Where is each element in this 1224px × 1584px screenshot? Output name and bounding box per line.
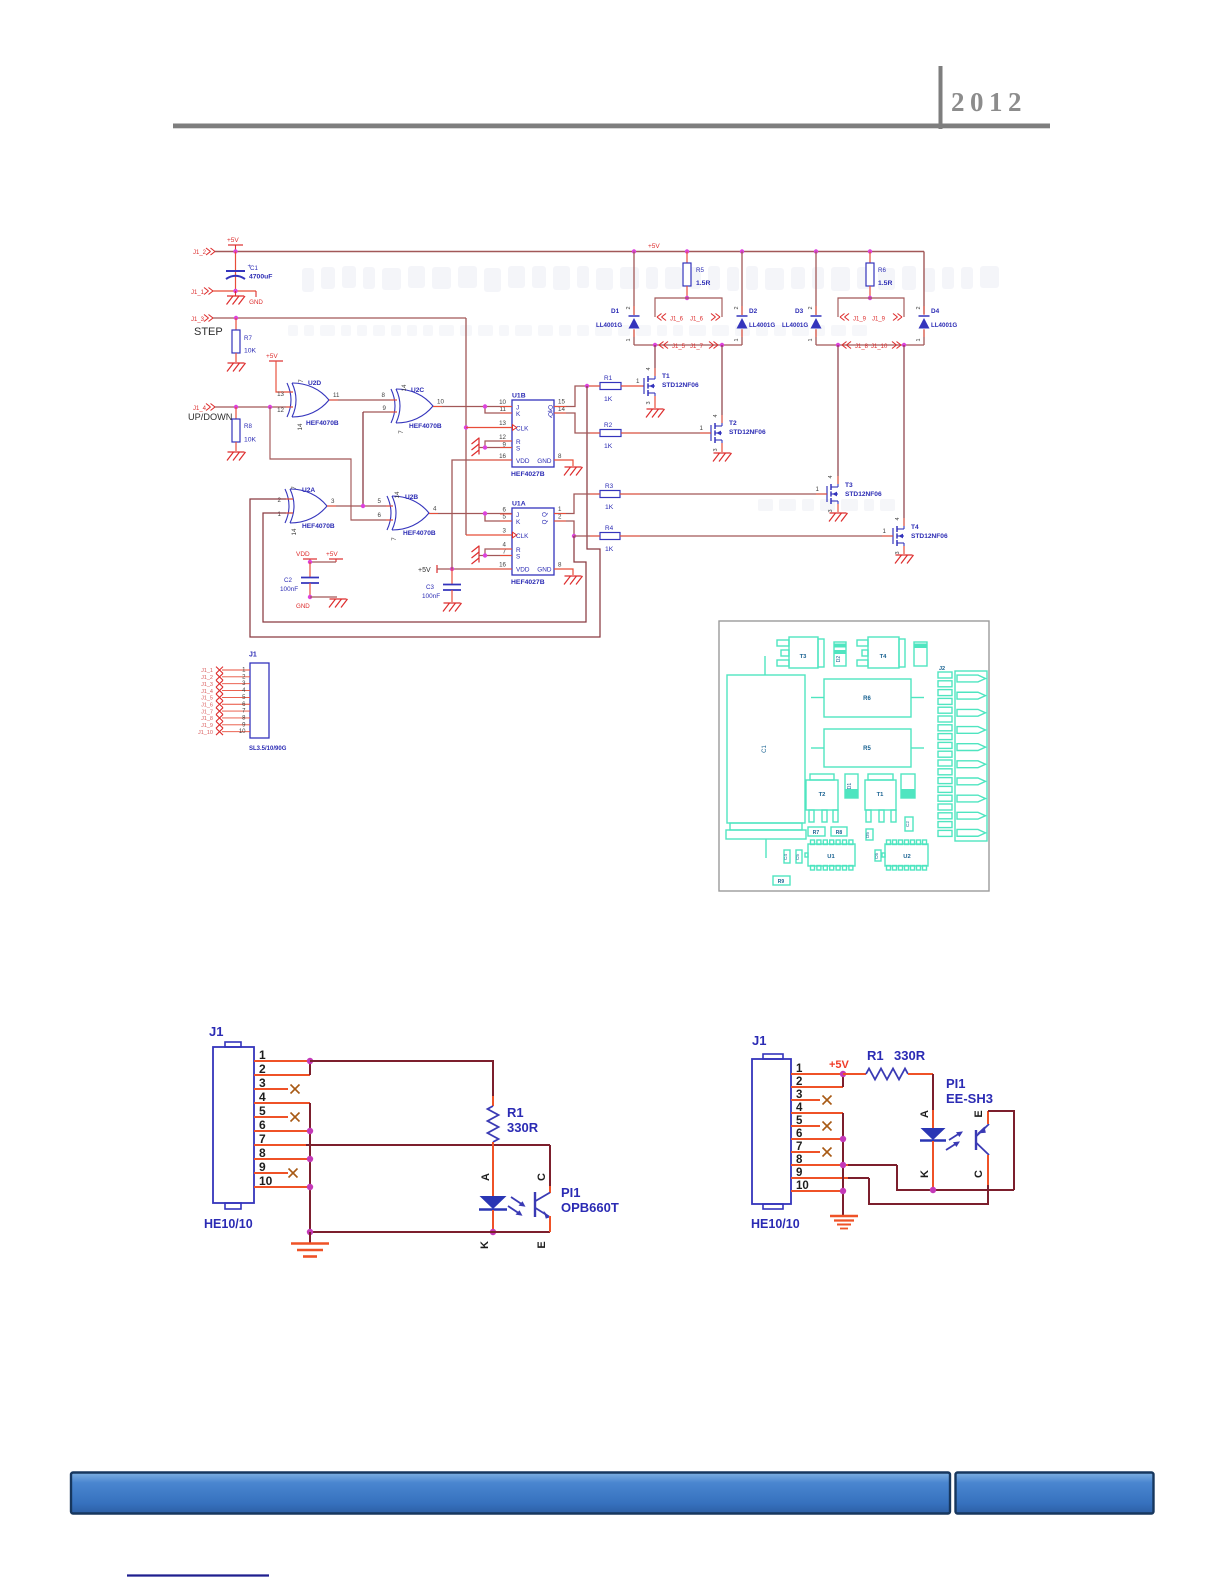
svg-text:CLK: CLK xyxy=(516,533,529,540)
svg-text:D4: D4 xyxy=(931,308,940,315)
pin leads output resistors xyxy=(589,386,893,536)
wire ground bus vertical (right) xyxy=(842,1113,844,1215)
svg-text:J1_4: J1_4 xyxy=(201,689,213,695)
junction rail R6 xyxy=(868,249,872,253)
svg-text:2012: 2012 xyxy=(951,87,1027,117)
connector pin J1_6 right xyxy=(690,314,720,323)
wire R1 to LED anode xyxy=(932,1074,934,1110)
svg-text:4: 4 xyxy=(242,688,246,694)
svg-text:OPB660T: OPB660T xyxy=(561,1200,619,1215)
PCB resistor R7 footprint xyxy=(808,827,825,836)
svg-text:HEF4070B: HEF4070B xyxy=(306,420,339,427)
svg-text:J1_7: J1_7 xyxy=(201,709,213,715)
node A label (right) xyxy=(919,1110,931,1118)
wire U2A out to U2B pin5 xyxy=(327,498,393,506)
svg-text:C4: C4 xyxy=(783,854,788,860)
svg-text:1.5R: 1.5R xyxy=(878,280,892,287)
svg-text:J1_3: J1_3 xyxy=(191,317,205,323)
wire U2D out to U2C pin8 xyxy=(329,392,397,400)
svg-text:4: 4 xyxy=(259,1090,266,1104)
junction rail/C1 xyxy=(233,249,237,253)
PCB test point footprint xyxy=(865,829,873,840)
svg-text:T1: T1 xyxy=(662,373,670,380)
junction rail D3 xyxy=(814,249,818,253)
connector J1 pin 5 wire J1_5 xyxy=(201,694,250,702)
connector J1 left pin 10 xyxy=(254,1174,310,1188)
node +5V at C3 xyxy=(418,565,437,574)
svg-text:STD12NF06: STD12NF06 xyxy=(729,429,766,436)
pin leads diodes xyxy=(634,306,924,337)
svg-text:+5V: +5V xyxy=(266,353,278,360)
svg-text:C1: C1 xyxy=(250,265,258,272)
pin leads MOSFET drains xyxy=(655,368,904,526)
pin leads XOR gates xyxy=(286,392,442,520)
junction rail D1 xyxy=(632,249,636,253)
svg-text:+5V: +5V xyxy=(326,551,338,558)
ground U1A GND pin xyxy=(554,569,583,585)
svg-text:U2: U2 xyxy=(903,854,910,860)
node VDD symbol xyxy=(296,551,317,562)
wire U1B Q to R1 xyxy=(554,386,600,407)
svg-text:A: A xyxy=(480,1173,492,1181)
wire C2 to ground xyxy=(310,596,337,598)
wire ground bus vertical xyxy=(309,1103,311,1232)
svg-text:9: 9 xyxy=(383,405,387,412)
wire R2 to T2 gate xyxy=(621,425,711,433)
connector J1 pin 9 wire J1_9 xyxy=(201,721,250,729)
svg-text:1: 1 xyxy=(259,1048,266,1062)
svg-text:J1_6: J1_6 xyxy=(690,317,704,323)
junction C1/ground xyxy=(233,289,237,293)
connector J1 pin 3 wire J1_3 xyxy=(201,680,250,688)
junction U1B J/K tie xyxy=(483,404,487,408)
connector J1 right pin 10 xyxy=(791,1180,843,1192)
svg-text:R5: R5 xyxy=(696,267,704,274)
svg-text:LL4001G: LL4001G xyxy=(749,322,775,329)
PCB diode D2 footprint xyxy=(834,642,846,666)
PCB resistor R6 footprint xyxy=(811,679,924,717)
connector J1 right pin 4 xyxy=(791,1102,843,1114)
svg-text:UP/DOWN: UP/DOWN xyxy=(188,412,232,422)
wire winding-2 ends row xyxy=(816,344,924,346)
ground (left schematic) xyxy=(291,1232,329,1257)
connector J1 right pin 7 xyxy=(791,1141,820,1153)
PCB transistor T1 footprint xyxy=(865,774,896,822)
svg-text:T2: T2 xyxy=(729,420,737,427)
connector pin J1_9 left xyxy=(840,314,867,323)
wire J1_1 to ground node xyxy=(213,290,256,292)
wire R4 to T4 gate xyxy=(620,528,893,536)
junction C2 top xyxy=(308,560,312,564)
PCB trace stub above C1 xyxy=(764,656,766,675)
connector J1 left pin 6 xyxy=(254,1118,310,1132)
junction feedback tap xyxy=(268,405,272,409)
connector J1 pin 6 wire J1_6 xyxy=(201,701,250,709)
svg-text:1: 1 xyxy=(626,338,632,341)
svg-text:R8: R8 xyxy=(836,830,843,836)
wire R4 input xyxy=(574,535,600,537)
svg-text:10: 10 xyxy=(259,1174,273,1188)
svg-text:J1_10: J1_10 xyxy=(198,730,213,736)
svg-text:J1_5: J1_5 xyxy=(672,344,686,350)
ground U1B GND pin xyxy=(554,460,583,476)
ground R7 xyxy=(227,363,246,372)
svg-text:1K: 1K xyxy=(605,546,614,553)
wire pin7 to phototransistor net xyxy=(306,1145,550,1186)
wire UP/DOWN net xyxy=(215,406,293,408)
svg-text:C1: C1 xyxy=(762,745,768,753)
svg-text:2: 2 xyxy=(626,306,632,309)
svg-text:D3: D3 xyxy=(795,308,804,315)
svg-text:C5: C5 xyxy=(795,854,800,860)
svg-text:T3: T3 xyxy=(845,482,853,489)
wire top net to R1 xyxy=(310,1061,493,1096)
junction pin8 (right) xyxy=(840,1162,846,1168)
phototransistor PI1 xyxy=(535,1186,550,1232)
transistor T3 STD12NF06 xyxy=(827,345,882,513)
svg-text:13: 13 xyxy=(277,391,284,398)
connector J1 SL3.5/10/90G xyxy=(249,652,287,753)
svg-text:3: 3 xyxy=(331,498,335,505)
svg-text:J1_1: J1_1 xyxy=(191,290,205,296)
svg-text:9: 9 xyxy=(242,722,246,728)
light arrows PI1 (right) xyxy=(946,1131,963,1150)
node +5V gate pullup xyxy=(266,353,283,361)
wire C1 branch xyxy=(235,252,237,292)
junction T1 drain xyxy=(653,343,657,347)
svg-text:8: 8 xyxy=(242,715,246,721)
wire feedback A (U1B Q to U2A pin2) xyxy=(250,386,600,637)
svg-text:GND: GND xyxy=(296,603,310,610)
svg-text:STEP: STEP xyxy=(194,326,223,338)
wire U1B Qbar to R2 xyxy=(554,413,600,433)
svg-text:7: 7 xyxy=(259,1132,266,1146)
svg-text:J1_6: J1_6 xyxy=(670,317,684,323)
svg-text:10: 10 xyxy=(239,729,246,735)
wire VDD tie xyxy=(310,561,336,563)
connector J1 right pin 9 xyxy=(791,1167,869,1179)
PCB resistor R9 footprint xyxy=(773,876,790,885)
svg-text:11: 11 xyxy=(333,392,340,399)
svg-text:J1_10: J1_10 xyxy=(871,344,888,350)
svg-text:E: E xyxy=(536,1241,548,1248)
svg-text:VDD: VDD xyxy=(516,567,530,574)
ground T2 xyxy=(713,453,732,462)
svg-text:R8: R8 xyxy=(244,423,252,430)
connector pin J1_3 xyxy=(191,315,213,324)
svg-text:2: 2 xyxy=(278,497,282,504)
connector pin J1_1 xyxy=(191,288,213,297)
svg-text:3: 3 xyxy=(503,528,507,535)
PCB connector J2 footprint xyxy=(938,666,987,841)
ground C3 xyxy=(443,603,462,612)
svg-text:330R: 330R xyxy=(894,1048,926,1063)
svg-text:PI1: PI1 xyxy=(946,1076,966,1091)
svg-text:+5V: +5V xyxy=(227,237,239,244)
svg-text:C3: C3 xyxy=(426,584,434,591)
op-amp U1B HEF4027B box xyxy=(499,393,565,479)
PCB diode D4 footprint xyxy=(914,642,927,666)
junction R6 centre tap xyxy=(868,296,872,300)
svg-text:14: 14 xyxy=(291,528,298,535)
svg-text:5: 5 xyxy=(259,1104,266,1118)
junction R5 centre tap xyxy=(685,296,689,300)
label PI1 OPB660T xyxy=(561,1185,619,1215)
svg-text:K: K xyxy=(479,1241,491,1249)
wire U1A CLK xyxy=(466,534,512,536)
svg-text:J1_9: J1_9 xyxy=(201,723,213,729)
svg-text:R2: R2 xyxy=(604,422,613,429)
junction T4 drain xyxy=(902,343,906,347)
svg-text:4700uF: 4700uF xyxy=(249,274,272,281)
svg-text:VDD: VDD xyxy=(516,458,530,465)
connector J1 right pin 2 xyxy=(791,1076,843,1088)
pin leads U1A xyxy=(470,514,566,570)
svg-text:S: S xyxy=(516,554,520,561)
wire LED cathode xyxy=(492,1210,494,1232)
junction pin10 xyxy=(307,1184,313,1190)
light arrows PI1 xyxy=(508,1197,526,1216)
svg-text:U1: U1 xyxy=(827,854,835,860)
svg-text:7: 7 xyxy=(242,709,246,715)
svg-text:C: C xyxy=(536,1173,548,1181)
svg-text:J1: J1 xyxy=(209,1024,223,1039)
junction R8 tap xyxy=(234,405,238,409)
no-connect X pin5 xyxy=(291,1113,300,1122)
svg-text:15: 15 xyxy=(558,399,565,406)
svg-text:J1_8: J1_8 xyxy=(201,716,213,722)
svg-text:LL4001G: LL4001G xyxy=(782,322,808,329)
svg-text:9: 9 xyxy=(259,1160,266,1174)
wire rail to D4 xyxy=(923,252,925,315)
wire pin2 tie xyxy=(842,1074,844,1087)
connector J1 pin 1 wire J1_1 xyxy=(201,667,250,675)
svg-text:D1: D1 xyxy=(847,783,853,790)
junction R4 / feedback B xyxy=(572,534,576,538)
resistor R1 1K xyxy=(600,375,621,403)
svg-text:13: 13 xyxy=(499,420,506,427)
svg-text:T1: T1 xyxy=(877,792,885,798)
svg-text:100nF: 100nF xyxy=(280,586,298,593)
connector J1 HE10/10 (right) xyxy=(751,1033,800,1231)
connector J1 left pin 4 xyxy=(254,1090,310,1104)
ground C2 xyxy=(296,599,348,610)
svg-text:11: 11 xyxy=(500,406,507,413)
connector J1 left pin 9 xyxy=(254,1160,288,1174)
PCB IC U2 footprint xyxy=(882,840,928,870)
svg-text:+5V: +5V xyxy=(418,567,431,574)
svg-text:HE10/10: HE10/10 xyxy=(751,1217,800,1231)
svg-text:1: 1 xyxy=(808,338,814,341)
resistor R2 1K xyxy=(600,422,621,450)
svg-text:2: 2 xyxy=(242,674,246,680)
footer bar right xyxy=(956,1473,1154,1514)
svg-text:J1_9: J1_9 xyxy=(872,317,886,323)
junction U1A J/K tie xyxy=(483,511,487,515)
junction pin6 xyxy=(307,1128,313,1134)
PCB capacitor C1 footprint xyxy=(726,675,806,858)
svg-text:7: 7 xyxy=(298,379,305,383)
junction K bottom xyxy=(490,1229,496,1235)
svg-text:EE-SH3: EE-SH3 xyxy=(946,1091,993,1106)
PCB diode D3 footprint xyxy=(901,774,915,798)
svg-text:7: 7 xyxy=(398,430,405,434)
svg-text:J1_6: J1_6 xyxy=(201,702,213,708)
svg-text:1K: 1K xyxy=(604,443,613,450)
wire winding-1 ends row xyxy=(634,344,742,346)
resistor R1 330R xyxy=(488,1096,539,1145)
wire STEP net xyxy=(213,318,466,535)
junction T2 drain xyxy=(720,343,724,347)
wire U1A Q to R3 xyxy=(554,494,600,514)
ground U1B R/S xyxy=(472,438,480,457)
connector pin J1_10 xyxy=(871,342,901,351)
no-connect X pin3 (right) xyxy=(823,1096,832,1105)
svg-text:E: E xyxy=(973,1110,985,1117)
wire winding-2 centre bracket xyxy=(838,298,904,317)
wire feedback B (U1A Qbar to U2A pin1) xyxy=(263,513,586,622)
wire LED anode xyxy=(492,1145,494,1196)
connector pin J1_5 xyxy=(659,342,686,351)
svg-text:J2: J2 xyxy=(939,666,945,672)
ground T1 xyxy=(646,409,665,418)
svg-text:10K: 10K xyxy=(244,437,257,444)
PCB diode D1 footprint xyxy=(845,774,858,798)
connector J1 pin 2 wire J1_2 xyxy=(201,673,250,681)
svg-text:3: 3 xyxy=(828,509,834,512)
svg-text:T4: T4 xyxy=(880,654,888,660)
PCB transistor T4 footprint xyxy=(857,637,905,668)
header year text 2012 xyxy=(951,87,1027,117)
svg-text:3: 3 xyxy=(713,448,719,451)
svg-text:3: 3 xyxy=(242,681,246,687)
svg-text:STD12NF06: STD12NF06 xyxy=(845,491,882,498)
svg-text:2: 2 xyxy=(916,306,922,309)
svg-text:HEF4070B: HEF4070B xyxy=(403,530,436,537)
svg-text:GND: GND xyxy=(537,567,552,574)
svg-text:PI1: PI1 xyxy=(561,1185,581,1200)
node A label xyxy=(480,1173,492,1181)
junction C2 bottom xyxy=(308,595,312,599)
svg-text:6: 6 xyxy=(503,507,507,514)
svg-text:LL4001G: LL4001G xyxy=(931,322,957,329)
svg-text:2: 2 xyxy=(808,306,814,309)
svg-text:T4: T4 xyxy=(911,524,919,531)
op-gate U2A HEF4070B xyxy=(278,486,335,536)
svg-text:R1: R1 xyxy=(867,1048,884,1063)
junction pin8 xyxy=(307,1156,313,1162)
wire bottom return xyxy=(310,1231,550,1233)
svg-text:16: 16 xyxy=(499,562,506,569)
junction T3 drain xyxy=(836,343,840,347)
footer table rule xyxy=(127,1574,269,1576)
svg-text:U2A: U2A xyxy=(302,487,315,494)
svg-text:D2: D2 xyxy=(749,308,758,315)
PCB resistor R5 footprint xyxy=(811,729,924,767)
transistor T2 STD12NF06 xyxy=(711,345,766,452)
svg-text:R6: R6 xyxy=(863,696,871,702)
svg-text:D5: D5 xyxy=(865,832,870,838)
node STEP label xyxy=(194,326,223,338)
connector pin J1_8 xyxy=(842,342,869,351)
svg-text:5: 5 xyxy=(242,695,246,701)
wire pin9 to collector net xyxy=(869,1178,988,1204)
svg-text:D1: D1 xyxy=(611,308,620,315)
svg-text:K: K xyxy=(516,519,521,526)
junction pins 1-2 xyxy=(307,1058,313,1064)
svg-text:10: 10 xyxy=(499,399,506,406)
svg-text:HEF4070B: HEF4070B xyxy=(409,423,442,430)
svg-text:GND: GND xyxy=(249,299,263,306)
no-connect X pin9 xyxy=(289,1169,298,1178)
svg-text:R6: R6 xyxy=(878,267,886,274)
svg-text:R1: R1 xyxy=(604,375,613,382)
svg-text:6: 6 xyxy=(242,702,246,708)
svg-text:16: 16 xyxy=(499,453,506,460)
node UP/DOWN label xyxy=(188,412,232,422)
wire +5V to pin13 xyxy=(276,361,293,392)
svg-text:J1_9: J1_9 xyxy=(853,317,867,323)
connector J1 pin 4 wire J1_4 xyxy=(201,687,250,695)
svg-text:R1: R1 xyxy=(507,1105,524,1120)
junction U2A out / U2C pin9 xyxy=(361,504,365,508)
svg-text:4: 4 xyxy=(433,506,437,513)
faint hidden text row A xyxy=(302,266,999,292)
wire U1A R/S tie xyxy=(479,549,512,556)
capacitor C2 100nF xyxy=(280,562,319,597)
phototransistor PI1 (right) xyxy=(976,1111,989,1185)
connector J1 right pin 3 xyxy=(791,1089,820,1101)
svg-text:VDD: VDD xyxy=(296,551,310,558)
node C label (right) xyxy=(973,1170,985,1178)
node C label xyxy=(536,1173,548,1181)
resistor R6 1.5R xyxy=(866,252,892,299)
junction R1 / feedback A xyxy=(585,384,589,388)
capacitor C3 100nF xyxy=(422,569,461,602)
diode D3 LL4001G xyxy=(782,252,822,346)
svg-text:C2: C2 xyxy=(905,821,910,827)
svg-text:1: 1 xyxy=(883,528,887,535)
faint hidden text row B xyxy=(288,325,867,336)
wire +5V rail xyxy=(215,243,924,252)
wire U2C out to U1B J/K xyxy=(433,399,512,414)
PCB capacitor C2 footprint xyxy=(905,817,913,831)
svg-text:D2: D2 xyxy=(836,656,842,663)
junction pin10 (right) xyxy=(840,1188,846,1194)
svg-text:1K: 1K xyxy=(605,504,614,511)
svg-text:1.5R: 1.5R xyxy=(696,280,710,287)
PCB capacitor C5 footprint xyxy=(795,850,802,863)
svg-text:LL4001G: LL4001G xyxy=(596,322,622,329)
connector pin J1_7 xyxy=(690,342,718,351)
svg-text:HEF4070B: HEF4070B xyxy=(302,523,335,530)
resistor R4 1K xyxy=(600,525,620,553)
junction pin6 (right) xyxy=(840,1136,846,1142)
node E label (right) xyxy=(973,1110,985,1117)
svg-text:10: 10 xyxy=(437,399,444,406)
junction U1B S xyxy=(483,445,487,449)
svg-text:R4: R4 xyxy=(605,525,614,532)
LED PI1 (right) xyxy=(920,1110,946,1190)
resistor R1 330R (right) xyxy=(843,1048,933,1080)
svg-text:5: 5 xyxy=(503,514,507,521)
svg-text:U2C: U2C xyxy=(411,387,424,394)
svg-text:Q: Q xyxy=(548,411,553,418)
svg-text:1: 1 xyxy=(278,511,282,518)
wire winding-1 centre bracket xyxy=(655,298,722,317)
connector pin J1_9 right xyxy=(872,314,902,323)
svg-text:1: 1 xyxy=(916,338,922,341)
